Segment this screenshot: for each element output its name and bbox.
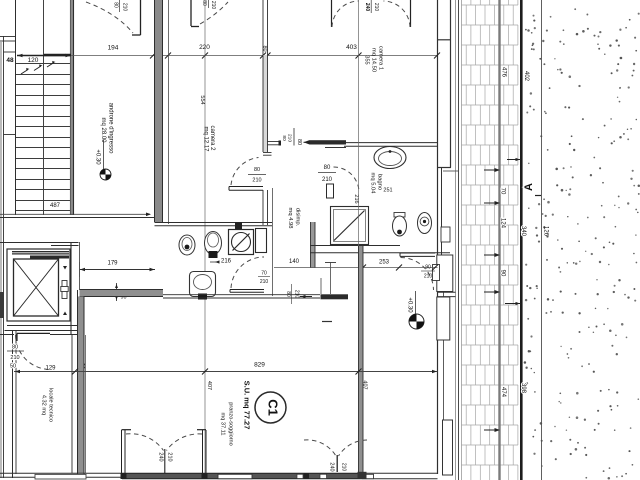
corridor dim line 179 bbox=[80, 269, 156, 271]
right wall window 4 bbox=[443, 420, 453, 475]
apartment tag circle bbox=[255, 392, 286, 423]
french1 left arc bbox=[126, 434, 164, 451]
svg-text:240: 240 bbox=[329, 462, 335, 471]
elevator control box bbox=[62, 281, 67, 299]
svg-text:camera 2: camera 2 bbox=[209, 125, 215, 151]
elevator marker up bbox=[63, 312, 67, 316]
svg-text:mq 28.00: mq 28.00 bbox=[100, 117, 106, 143]
right wall outer line bbox=[443, 291, 445, 474]
bottom threshold mid bbox=[218, 474, 252, 478]
svg-text:80: 80 bbox=[201, 0, 207, 6]
level mark line soggiorno bbox=[415, 291, 417, 318]
sliding door arrow bbox=[304, 140, 310, 144]
camera2 top door swing arc bbox=[200, 2, 228, 24]
left edge dark wall segment bbox=[0, 292, 4, 318]
ground boundary line bbox=[541, 0, 543, 480]
elevator right wall bbox=[70, 242, 72, 334]
wall disimp-bagno fill bbox=[311, 222, 316, 268]
stair right wall outer bbox=[73, 0, 75, 215]
door frame vertical bbox=[330, 263, 332, 295]
svg-text:210: 210 bbox=[373, 3, 379, 12]
door post a bbox=[121, 473, 127, 479]
wall androne-camera2 fill bbox=[155, 0, 163, 222]
svg-text:bagno: bagno bbox=[377, 174, 383, 190]
terrace inner edge line bbox=[455, 0, 457, 480]
washbasin bbox=[374, 147, 406, 169]
bagno2 bidet bbox=[205, 232, 222, 259]
svg-text:mq 14.50: mq 14.50 bbox=[371, 48, 377, 72]
bottom threshold n2 bbox=[320, 474, 327, 478]
elevator cab cross bbox=[14, 259, 59, 316]
terrace brick paving hatch bbox=[462, 0, 519, 480]
wall camera2-bagno2 bbox=[155, 222, 273, 224]
bagno2 sink bbox=[190, 272, 216, 300]
door post b bbox=[202, 473, 208, 479]
building left edge line bbox=[0, 42, 2, 478]
bottom wall east thin pair bbox=[360, 472, 438, 474]
bagno door leaf box bbox=[327, 184, 334, 198]
camera2 right wall upper bbox=[262, 0, 264, 152]
svg-text:216: 216 bbox=[221, 259, 232, 265]
bagno dim line bbox=[274, 267, 438, 269]
level marker circle soggiorno bbox=[409, 314, 424, 329]
sliding door panel bbox=[310, 140, 347, 144]
camera1 window leaf stubs bbox=[331, 0, 333, 27]
svg-text:pranzo-soggiorno: pranzo-soggiorno bbox=[228, 402, 234, 446]
svg-text:253: 253 bbox=[379, 260, 390, 266]
svg-text:554: 554 bbox=[199, 95, 205, 104]
terrace leader line bbox=[505, 303, 521, 305]
svg-text:50: 50 bbox=[10, 364, 16, 370]
camera2 right wall corner bbox=[263, 152, 272, 154]
kitchen wall base block bbox=[358, 472, 367, 479]
svg-text:194: 194 bbox=[108, 45, 119, 52]
camera1 door label bar bbox=[421, 270, 435, 272]
disimp left wall bbox=[272, 188, 274, 296]
top dimension line bbox=[71, 55, 438, 57]
dim arrow at y=430 on terrace dim line bbox=[484, 429, 499, 431]
right wall window 2 bbox=[437, 255, 453, 292]
svg-text:140: 140 bbox=[289, 259, 300, 265]
entrance door swing arc bbox=[86, 2, 133, 33]
stair right wall inner bbox=[70, 0, 72, 215]
svg-text:407: 407 bbox=[206, 381, 212, 390]
svg-text:240: 240 bbox=[157, 452, 163, 461]
stair right wall fill bbox=[71, 0, 74, 215]
french1 center post bbox=[164, 449, 166, 473]
svg-text:210: 210 bbox=[252, 178, 261, 184]
door frame tick bbox=[325, 262, 336, 264]
french1 right arc bbox=[167, 434, 203, 451]
stair treads bbox=[16, 64, 70, 211]
bagno2 wc bbox=[179, 235, 195, 255]
bagno bidet bbox=[418, 213, 432, 234]
svg-text:locale tecnico: locale tecnico bbox=[48, 388, 54, 422]
svg-text:70: 70 bbox=[261, 271, 267, 277]
svg-text:210: 210 bbox=[210, 1, 216, 10]
svg-text:210: 210 bbox=[322, 177, 333, 183]
svg-text:474: 474 bbox=[500, 387, 506, 398]
corridor dim ext line bbox=[79, 262, 81, 277]
svg-text:mq 5.04: mq 5.04 bbox=[370, 173, 376, 195]
camera2 left face line bbox=[168, 0, 170, 224]
locale left wall inner bbox=[15, 330, 17, 474]
partition stub bbox=[267, 141, 280, 143]
svg-text:A: A bbox=[523, 183, 535, 191]
svg-text:camera 1: camera 1 bbox=[378, 46, 384, 70]
svg-text:80: 80 bbox=[296, 139, 302, 145]
svg-text:210: 210 bbox=[287, 134, 293, 142]
wall thickness arrow bbox=[116, 283, 118, 301]
elevator outer box bbox=[7, 249, 70, 321]
camera2 door swing arc bbox=[231, 158, 259, 186]
bottom threshold right bbox=[363, 474, 374, 478]
elevator top wall bbox=[0, 242, 79, 244]
french1 right leaf bbox=[202, 430, 204, 473]
locale door swing arc bbox=[16, 335, 51, 370]
bottom wall thin pair bbox=[0, 472, 122, 474]
svg-text:80: 80 bbox=[262, 45, 268, 51]
right wall small box 1 bbox=[441, 227, 450, 242]
ground stipple texture bbox=[524, 8, 640, 479]
svg-text:80: 80 bbox=[254, 167, 260, 173]
vertical dim line x358 bbox=[358, 0, 360, 268]
soggiorno north wall gray band bbox=[80, 290, 164, 297]
svg-text:340: 340 bbox=[520, 226, 526, 237]
wall disimp-bagno edges bbox=[310, 222, 312, 268]
bagno south wall bbox=[310, 245, 400, 247]
svg-text:210: 210 bbox=[166, 452, 172, 461]
svg-text:476: 476 bbox=[501, 67, 507, 78]
locale top wall bbox=[50, 334, 78, 336]
svg-text:124: 124 bbox=[500, 218, 506, 229]
camera2 right wall fill bbox=[263, 55, 268, 152]
locale left wall outer bbox=[12, 330, 14, 478]
soggiorno west wall fill bbox=[78, 297, 85, 474]
svg-text:48: 48 bbox=[6, 57, 14, 64]
svg-text:androne d'ingresso: androne d'ingresso bbox=[108, 103, 114, 155]
svg-text:80: 80 bbox=[113, 2, 119, 8]
right wall inner line bbox=[437, 0, 439, 474]
dim arrow at y=203 on terrace dim line bbox=[484, 202, 499, 204]
wall androne-camera2 right line bbox=[162, 0, 164, 222]
svg-text:398: 398 bbox=[520, 383, 526, 394]
svg-text:mq 4.98: mq 4.98 bbox=[287, 208, 293, 229]
vertical dimension line (terrace) bbox=[498, 0, 500, 480]
bottom wall thick band bbox=[122, 473, 360, 478]
kitchen wall edges bbox=[358, 246, 360, 473]
svg-text:+0.30: +0.30 bbox=[95, 149, 101, 165]
svg-text:403: 403 bbox=[346, 44, 357, 51]
stair direction arrows bbox=[21, 61, 56, 74]
wall pilaster block bbox=[235, 222, 242, 229]
svg-text:126: 126 bbox=[543, 226, 549, 237]
svg-text:179: 179 bbox=[107, 261, 118, 267]
bagno2 door swing arc bbox=[231, 257, 264, 288]
locale right wall outer line bbox=[71, 335, 73, 473]
camera2 door label bar bbox=[248, 174, 266, 176]
right wall niche bbox=[450, 0, 452, 168]
locale door label bar bbox=[7, 350, 24, 352]
svg-text:80: 80 bbox=[285, 291, 291, 297]
right wall window 1 bbox=[441, 168, 443, 255]
elevator marker down bbox=[63, 266, 67, 270]
svg-text:210: 210 bbox=[10, 355, 19, 361]
level marker circle androne bbox=[100, 169, 111, 180]
section marker dash bbox=[535, 195, 541, 197]
french2 center post bbox=[336, 455, 338, 472]
dim arrow at y=292 on terrace dim line bbox=[484, 291, 499, 293]
french2 right arc bbox=[339, 440, 368, 456]
camera1 door leaf bbox=[400, 252, 435, 254]
svg-text:+0.30: +0.30 bbox=[407, 297, 413, 313]
svg-text:C1: C1 bbox=[265, 399, 280, 416]
stair newel strip second line bbox=[0, 40, 16, 42]
svg-text:80: 80 bbox=[281, 135, 287, 141]
open door panel thick bar bbox=[321, 294, 349, 299]
bagno2 door label bar bbox=[258, 276, 270, 278]
camera2 right wall lower bbox=[262, 190, 264, 225]
corner line x321 bbox=[320, 278, 322, 294]
washing machine bbox=[229, 230, 254, 255]
disimp door arrow bbox=[300, 296, 312, 298]
svg-text:210: 210 bbox=[341, 463, 347, 472]
brick strip left edge bbox=[461, 0, 463, 480]
svg-text:90: 90 bbox=[425, 265, 431, 271]
svg-text:402: 402 bbox=[523, 71, 529, 82]
svg-text:80: 80 bbox=[12, 345, 18, 351]
elevator bottom wall bbox=[7, 325, 79, 327]
svg-text:120: 120 bbox=[28, 57, 39, 64]
small mark soggiorno bbox=[322, 321, 332, 323]
svg-text:disimp.: disimp. bbox=[295, 208, 301, 227]
soggiorno west wall edges bbox=[77, 290, 79, 474]
svg-text:251: 251 bbox=[383, 188, 392, 194]
locale inner face bbox=[85, 335, 87, 473]
french1 left leaf bbox=[121, 430, 123, 473]
bottom wall band edges bbox=[122, 472, 360, 474]
bottom threshold n1 bbox=[297, 474, 303, 478]
hall dim line 487 bbox=[0, 213, 150, 215]
svg-text:487: 487 bbox=[50, 203, 61, 209]
top dim ticks bbox=[150, 53, 440, 59]
wall androne-camera2 left line bbox=[154, 0, 156, 222]
right wall small box 2 bbox=[433, 265, 440, 281]
bagno wc bbox=[393, 213, 407, 237]
svg-text:70: 70 bbox=[500, 188, 506, 195]
right wall corner lines bbox=[438, 291, 456, 293]
door post c bbox=[304, 473, 310, 479]
dim arrow at y=170 on terrace dim line bbox=[484, 169, 499, 171]
svg-text:210: 210 bbox=[294, 290, 300, 299]
bagno door swing arc bbox=[334, 167, 360, 193]
svg-text:90: 90 bbox=[500, 270, 506, 277]
svg-text:240: 240 bbox=[364, 3, 370, 12]
svg-text:407: 407 bbox=[362, 380, 368, 389]
bagno door label bar bbox=[318, 172, 336, 174]
svg-text:80: 80 bbox=[324, 165, 331, 171]
svg-text:4.32 mq: 4.32 mq bbox=[41, 395, 47, 415]
kitchen wall fill bbox=[359, 246, 364, 473]
terrace leader line 2 bbox=[507, 159, 521, 161]
svg-text:mq 12.17: mq 12.17 bbox=[203, 126, 209, 152]
elevator cab bbox=[14, 259, 59, 316]
dim arrow at y=255 on terrace dim line bbox=[484, 254, 499, 256]
soggiorno north wall edges bbox=[80, 289, 164, 291]
svg-text:mq 37.11: mq 37.11 bbox=[220, 413, 226, 436]
terrace outer heavy wall bbox=[520, 0, 523, 480]
camera2 top door leaf bbox=[190, 0, 192, 26]
stair strip box line bbox=[4, 51, 16, 53]
hall wall line under stairs bbox=[0, 217, 155, 219]
camera1 door swing arc bbox=[401, 258, 434, 291]
stair left inner wall bbox=[15, 0, 17, 215]
vertical dim line x205 bbox=[204, 0, 206, 473]
elevator door bars bbox=[12, 251, 69, 255]
level mark line (androne) bbox=[103, 140, 105, 176]
entrance door leaf bbox=[140, 0, 142, 35]
stair mid line bbox=[43, 0, 45, 215]
stair strip bottom line bbox=[4, 134, 16, 136]
svg-text:S.U. mq 77.27: S.U. mq 77.27 bbox=[242, 381, 251, 430]
svg-text:210: 210 bbox=[122, 3, 128, 12]
disimp south wall bbox=[163, 294, 320, 296]
bagno north wall bbox=[344, 142, 438, 144]
svg-text:129: 129 bbox=[45, 366, 56, 372]
french2 left arc bbox=[304, 440, 336, 456]
sliding door jamb line bbox=[293, 128, 295, 146]
camera2 door leaf bbox=[229, 186, 263, 188]
svg-text:210: 210 bbox=[424, 274, 433, 280]
svg-text:210: 210 bbox=[260, 279, 269, 285]
svg-text:355: 355 bbox=[364, 55, 370, 64]
camera1 window arcs bbox=[332, 1, 359, 27]
right wall window 3 bbox=[437, 297, 450, 340]
locale door leaf bbox=[17, 332, 50, 334]
sliding door track bbox=[325, 147, 346, 149]
shower tray bbox=[331, 207, 369, 245]
bagno2 door leaf bbox=[230, 289, 264, 291]
terrace wall line bbox=[458, 0, 460, 480]
soggiorno dim line bbox=[14, 371, 438, 373]
stair left outer wall bbox=[3, 36, 5, 478]
stair width dim line bbox=[17, 55, 71, 57]
bottom threshold left bbox=[35, 474, 86, 479]
stair newel strip top line bbox=[0, 36, 16, 38]
boiler column bbox=[256, 229, 267, 253]
svg-text:829: 829 bbox=[254, 362, 265, 369]
